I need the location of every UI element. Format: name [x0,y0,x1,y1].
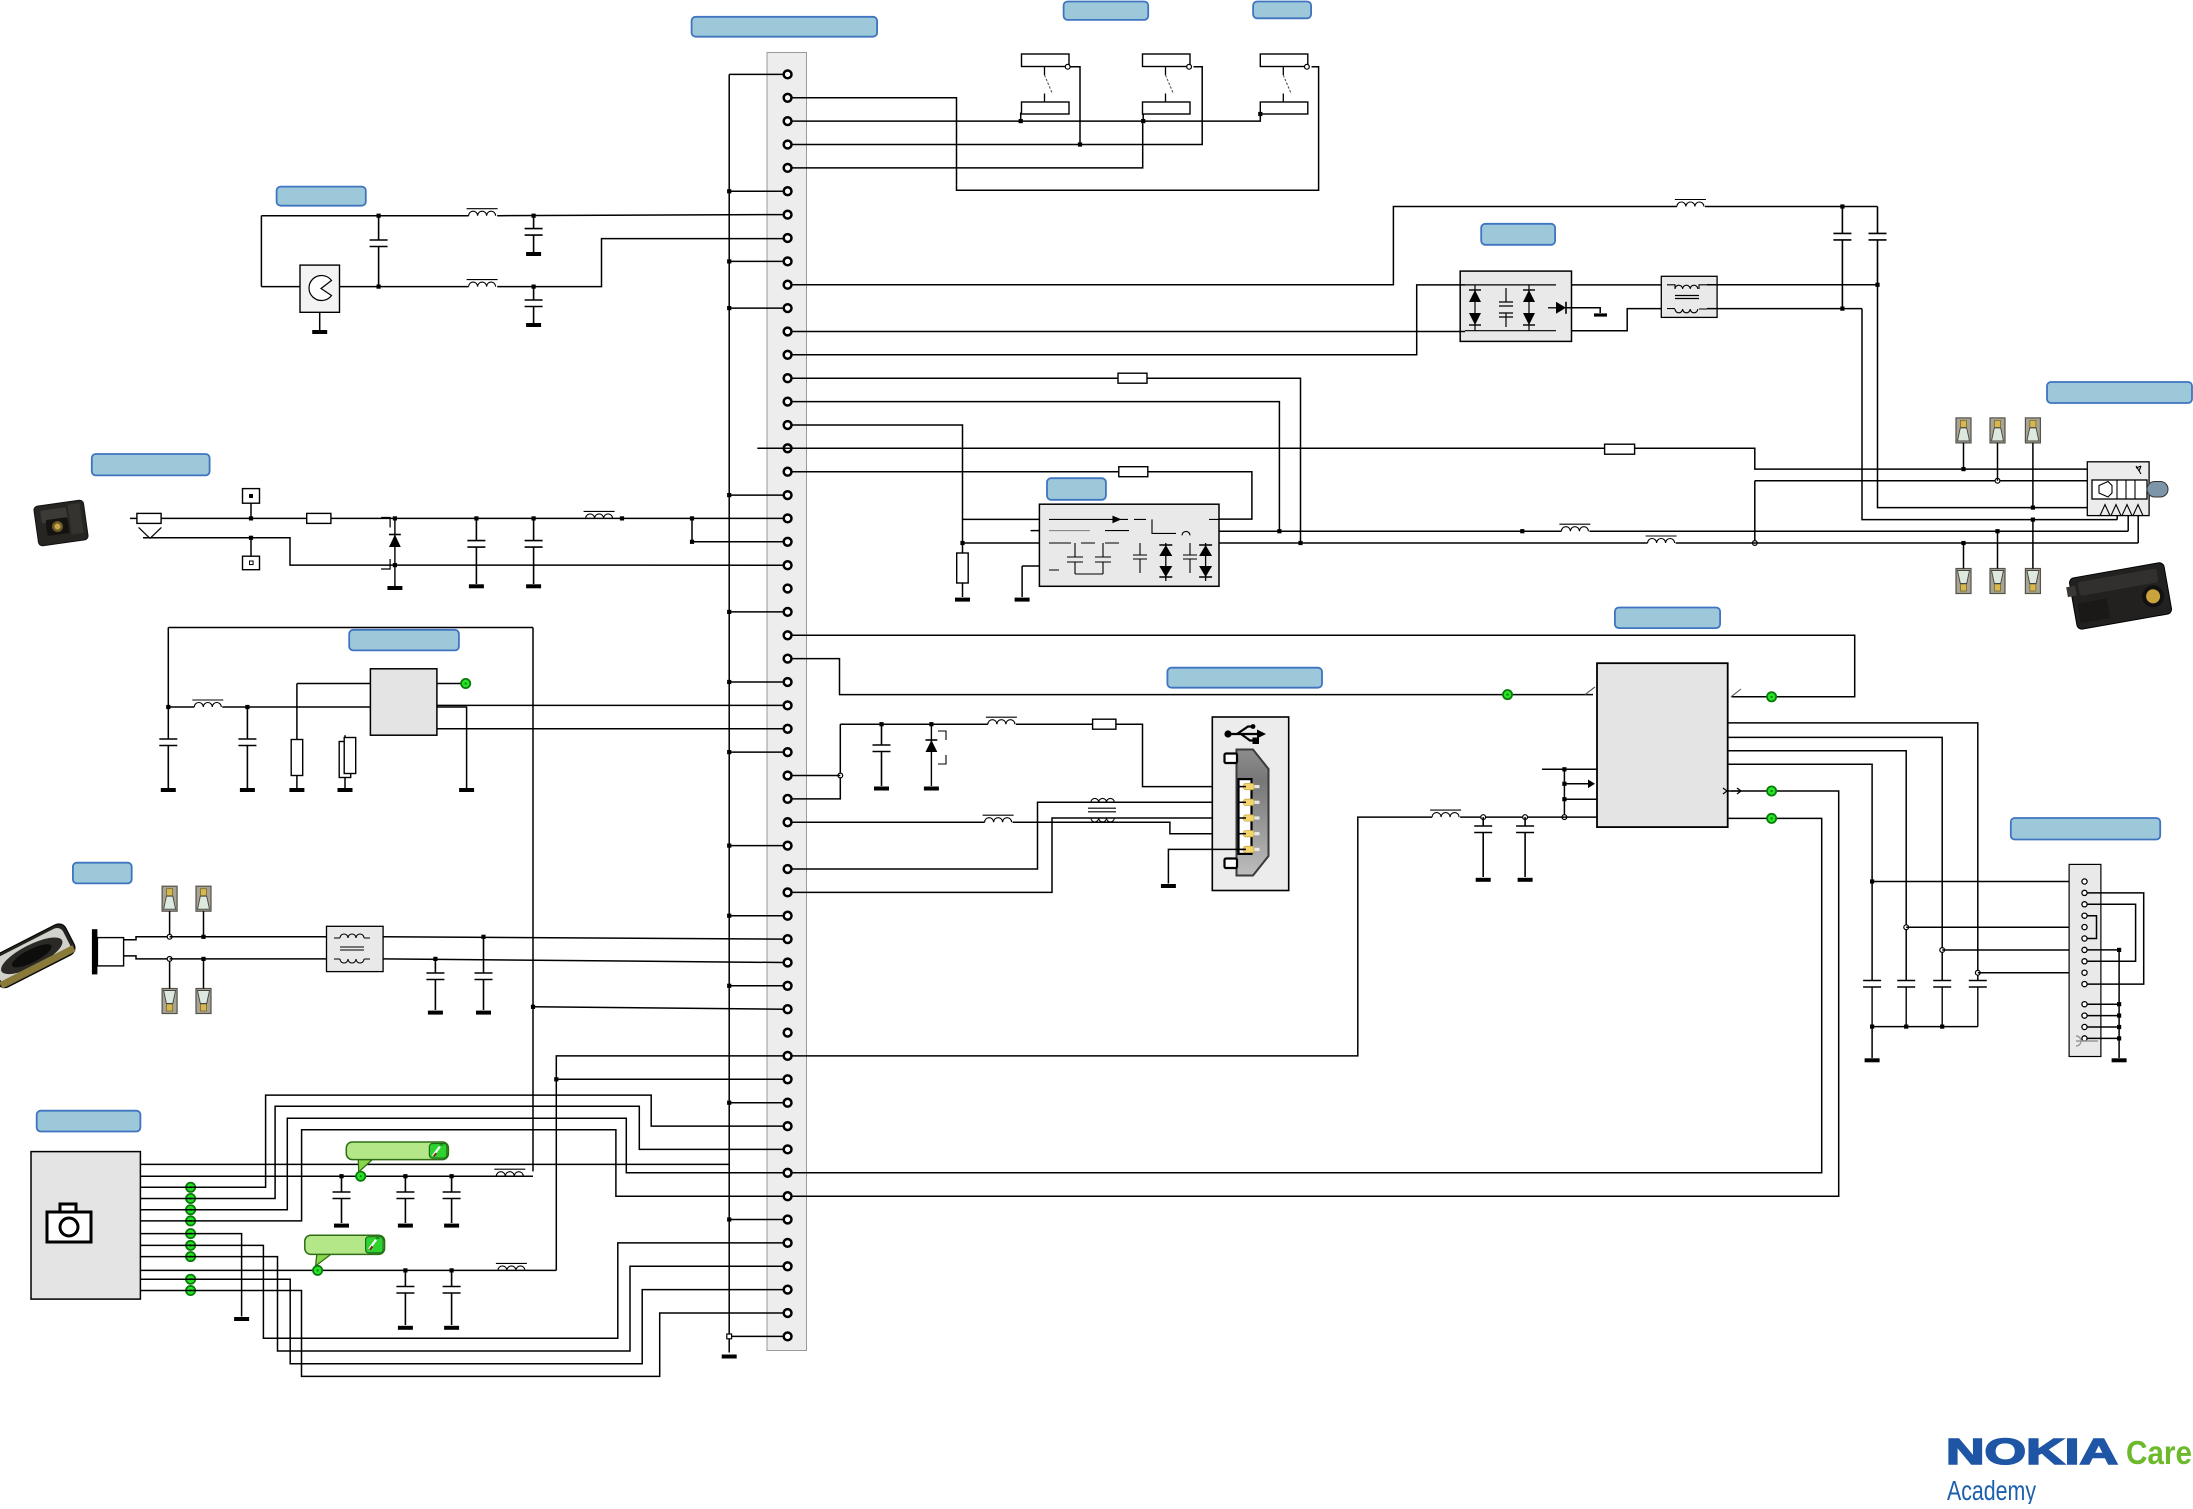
pin 36 [784,889,792,897]
resistor - pin14 series [1118,373,1147,383]
capacitor - jack rail 2 [525,518,543,547]
junction - IC left bus 1 [1562,767,1566,771]
wire - EMI gnd stub [1021,566,1023,597]
wire [296,776,298,789]
junction - pad4 [201,957,205,961]
junction - transformer bottom [1840,307,1844,311]
photo - speaker/mic component [0,921,78,990]
wire - USB pin lead overlay [1239,786,1247,788]
wire - jack low rail to pin22 [395,564,784,566]
pin 43 [784,1052,792,1060]
junction - ESD on jack low rail [393,563,397,567]
capacitor - IC output filter [1897,981,1915,988]
pin 12 [784,328,792,336]
test point - camera w11 (green) [186,1275,195,1284]
USB pin 5 [1252,848,1260,851]
X200 pin 12 [2082,1013,2087,1018]
capacitor - mic 2 [475,937,493,980]
wire - pad3 down [2032,443,2034,508]
junction - IC left bus 4 [1562,815,1567,820]
junction - bus at pin 34 [727,844,731,848]
wire - regulator out to pin29 [437,728,784,730]
switch S2 right pin [1187,64,1192,69]
ground - rail2 cap [398,1326,413,1330]
callout - camera rail1 measurement [346,1142,448,1172]
wire - pad3 from bottom rail [169,959,171,989]
label - right connector [2011,818,2160,840]
switch S3 bottom terminal [1260,102,1308,114]
photo - charger jack component [33,500,88,547]
pin 9 [784,258,792,266]
inductor - VBUS [986,717,1017,724]
junction - X200 gnd stub [2117,1036,2121,1040]
wire - top rail to corner [1842,206,1877,208]
wire - rail2 up to pin43 [556,1056,783,1271]
resistor R1 - vertical [291,740,303,776]
junction - jack cap2 [532,516,536,520]
label - side keys 2 [1253,2,1311,19]
wire - camera rail2 [140,1269,556,1271]
capacitor - camera rail1 [333,1176,351,1198]
inductor - camera rail1 [494,1169,525,1176]
wire - pin14 to EMI row [1147,378,1301,543]
ground - rail1 cap [398,1224,413,1228]
diode - ESD output [1548,307,1556,309]
transformer T2 [1661,276,1717,317]
wire - bus to pin 37 [729,915,783,917]
pin 8 [784,234,792,242]
junction - VCAM feed to pin41 [531,1005,535,1009]
wire - camera w11 loop to pin53 [140,1279,783,1364]
X200 pin 5 [2082,925,2087,930]
capacitor - IC output filter [1863,981,1881,988]
wire - VBUS rail [840,723,988,725]
inductor - VBAT [1430,810,1461,817]
ground - jack cap1 [469,584,484,588]
wire - pad2 to top rail [203,911,205,937]
junction - VBUS cap [879,722,883,726]
capacitor - IC output filter [1969,981,1987,988]
wire - bus to pin 34 [729,845,783,847]
pin 1 [784,71,792,79]
junction - bus at pin 19 [727,493,731,497]
svg-text:NOKIA: NOKIA [1946,1431,2118,1472]
test point - camera rail1 (green) [356,1172,365,1181]
test point J-top [243,489,260,504]
junction - VBAT cap [1481,815,1486,820]
wire - mic bottom rail [170,958,327,960]
wire - earpiece bottom rail [340,286,469,288]
ground - rail1 cap [334,1224,349,1228]
wire - USB ID pin33 [792,821,985,823]
charging IC N2 [1597,663,1728,827]
junction - cap2 on top rail [532,214,536,218]
headset jack springs [2100,505,2143,516]
mic symbol box [97,938,123,966]
wire - S1 bottom pin stub [1020,113,1022,122]
ESD array internals [1465,285,1556,331]
contact pad - mic 1 bottom [162,989,177,1014]
junction - aux vertical at pin21 [690,540,694,544]
X200 pin 2 [2082,890,2087,895]
wire - pin 1 to bus [729,73,783,75]
switch S2 arm [1165,67,1167,103]
wire - earpiece bottom rail to pin8 [497,239,783,287]
ground - earpiece cap3 [526,323,541,327]
wire - feed down to headset row 507 [1878,285,2088,508]
wire - X200 gnd vertical [2118,950,2120,1058]
X200 pin 14 [2082,1036,2087,1041]
Nokia Care Academy logo [1946,1431,2192,1506]
junction - testpoint on jack rail [249,516,253,520]
resistor R2 - double [339,742,351,778]
junction - ESD on jack rail [393,516,397,520]
ground - jack ESD [387,586,402,590]
junction - bus at pin 27 [727,680,731,684]
wire - EMI gnd stub2 [1022,565,1039,567]
switch S1 arm [1044,67,1046,103]
wire [344,778,346,789]
junction - rail1 cap [403,1174,407,1178]
wire - IC stub4 [1564,816,1597,818]
junction - r1 row [1975,970,1980,975]
wire - X200 loop p3-p8 [2087,904,2136,961]
pin 52 [784,1262,792,1270]
wire - row to conn pin5 [1906,926,2084,928]
ground - EMI [1015,598,1030,602]
ground - mic cap1 [428,1011,443,1015]
junction - r2 row [1940,948,1945,953]
pin 23 [784,585,792,593]
ground - R2 [338,788,353,792]
wire - row to conn pin1 [1872,881,2084,883]
wire - pin26 to charge IC left [792,659,1508,695]
mic symbol bar [92,929,98,974]
label - charger/AV jack [92,454,210,475]
wire - inductor to regulator [222,706,370,708]
capacitor - IC output filter [1933,981,1951,988]
transformer T2 coils [1675,285,1698,289]
junction - jack cap1 [474,516,478,520]
junction - IC left bus 2 [1562,782,1566,786]
pin 24 [784,608,792,616]
junction - pin15 net [1277,529,1281,533]
pin 29 [784,725,792,733]
wire - USB pin lead overlay [1239,848,1247,850]
EMI TVS diodes [1165,543,1167,581]
wire - USB pin lead overlay [1239,817,1247,819]
capacitor - top rail 1 [1833,207,1851,240]
wire - VBUS down to pin32 [792,724,841,799]
wire - caps common [1872,1026,1978,1028]
ground - rail2 cap [444,1326,459,1330]
camera module [31,1152,140,1300]
contact pad - headset bottom [1956,569,1971,594]
contact pad - headset top [2025,418,2040,443]
wire - camera w7 to ground [140,1234,241,1317]
switch S1 bottom terminal [1022,102,1070,114]
ground - X200 [2112,1058,2127,1062]
wire - vertical to row542 [1754,481,1756,543]
wire - bus to pin 6 [729,190,783,192]
wire - jack rail left stub [130,517,137,519]
junction - S1 bottom pin on pin3 net [1019,119,1023,123]
wire - pin2 to S3 right pin [792,67,1319,191]
headset jack symbol box [2087,462,2149,516]
contact pad - mic 1 top [162,886,177,911]
wire - pin10 up to top rail [792,207,1677,285]
capacitor - earpiece rails [370,216,388,287]
pin 53 [784,1286,792,1294]
X200 pin 11 [2082,1002,2087,1007]
test point - camera w5 (green) [186,1205,195,1214]
ground - ESD small [1594,313,1607,316]
wire - earpiece top rail [261,215,468,217]
inductor - jack rail [584,511,615,518]
ground - connector bus [722,1355,737,1359]
junction - row542 [1752,541,1757,546]
junction (open) - bus at pin 55 [727,1334,732,1339]
wire - row to conn pin9 [1978,972,2085,974]
X200 pin 7 [2082,947,2087,952]
EMI filter internals [1049,516,1219,574]
wire - pin18 row [792,471,1119,473]
switch S3 arm [1282,67,1284,103]
wire - X200 p7 stub [2087,949,2119,951]
wire - bus to pin 45 [729,1102,783,1104]
wire - bus to pin 50 [729,1219,783,1221]
inductor - USB ID [983,815,1014,822]
wire - mic out bottom [124,956,170,959]
junction - pad1 [167,934,172,939]
pin 13 [784,351,792,359]
USB pin 1 [1252,785,1260,788]
ground - USB shield [1161,884,1176,888]
wire - pin18 to EMI right [1148,472,1252,519]
contact pad - headset bottom [1990,569,2005,594]
headset plug symbol [2092,480,2147,499]
ground - regulator [459,788,474,792]
junction - bus at pin 11 [727,306,731,310]
wire - mid row 531 right [1589,530,2128,532]
junction - jack rail to aux vertical [690,516,694,520]
wire - pin12 to ESD bottom [792,331,1465,333]
pin 35 [784,865,792,873]
label - mic [73,863,132,884]
junction - EMI bias resistor [960,541,964,545]
wire - row to conn pin7 [1942,949,2084,951]
test point - camera w3 (green) [186,1183,195,1192]
junction - pad1 on row469 [1961,467,1965,471]
wire - IC out r1 [1728,723,1978,981]
resistor - VBUS series [1093,719,1116,729]
pin 30 [784,748,792,756]
wire - USB shield to ground [1168,849,1238,883]
test point - camera w8 (green) [186,1241,195,1250]
pin 54 [784,1309,792,1317]
ground - IC caps [1865,1058,1880,1062]
ESD array box [1460,271,1571,341]
junction - pad6 row [2031,518,2035,522]
wire - ESD to transformer bottom [1572,309,1662,331]
headset jack arrow [2136,466,2141,474]
wire - mic top rail [170,936,327,938]
capacitor - top rail 2 [1869,207,1887,240]
svg-text:Care: Care [2126,1434,2192,1471]
wire - mid row 543 right [1676,542,2139,544]
ground - rail1 cap [444,1224,459,1228]
pin 19 [784,491,792,499]
label - earpiece [277,187,366,206]
junction - bus at pin 50 [727,1217,731,1221]
wire - jack rail to pin20 [161,517,784,519]
contact pad - headset top [1956,418,1971,443]
wire - VCAM to pin41 [533,1007,784,1009]
X200 pin 13 [2082,1024,2087,1029]
inductor - top rail [1675,200,1706,207]
wire - VBAT pin43 loop [792,817,1433,1056]
wire - spring4 to row543 [2137,516,2139,543]
junction - pad2 [201,935,205,939]
X200 pin 1 [2082,879,2087,884]
junction - X200 gnd stub [2117,1002,2121,1006]
contact pad - mic 2 top [196,886,211,911]
junction - bus at pin 24 [727,610,731,614]
wire - pad1 to top rail [169,911,171,937]
switch S1 right pin [1065,64,1070,69]
junction - bus at pin 9 [727,259,731,263]
pin 55 [784,1333,792,1341]
wire - USB ID to pin4 [1013,822,1245,834]
wire - pad4 up [1963,543,1965,569]
slash mark - IC right entry [1731,689,1741,697]
wire - EMI left top branch [963,518,1040,520]
pin 44 [784,1075,792,1083]
earpiece speaker symbol [309,276,332,301]
pin 40 [784,982,792,990]
switch S2 bottom terminal [1143,102,1191,114]
junction - cap on earpiece bottom rail [377,285,381,289]
capacitor - camera rail1 [396,1176,414,1198]
wire - bus to pin 24 [729,611,783,613]
wire - pin3 to switch bottom pins [792,114,1261,121]
wire - X200 gnd stub [2087,1003,2119,1005]
label - FM antenna [1481,224,1555,245]
wire - EMI left mid stub [1031,530,1040,532]
wire - IC stub1 [1542,768,1597,770]
junction - pad3 [167,957,172,962]
pin 2 [784,94,792,102]
junction - S2 bottom pin on pin3 net [1141,119,1145,123]
wire - pin17 long row to headset [757,448,2087,469]
wire - VBUS to USB pin1 [1116,724,1245,786]
ground - VBAT cap [1476,878,1491,882]
ground - jack cap2 [526,584,541,588]
wire - pin5 up to S2 bottom net [792,123,1143,168]
wire - transformer bottom row extend [1842,308,1862,310]
inductor - mid row 543 [1646,536,1677,543]
pin 32 [784,795,792,803]
wire - R2 lead [344,735,346,741]
junction - mic cap1 [433,957,437,961]
wire - to pin21 [692,541,784,543]
wire - X200 loop p2-p10 [2087,893,2144,984]
pin 7 [784,211,792,219]
pin 37 [784,912,792,920]
junction - cap column at transformer top row [1875,283,1879,287]
camera icon [47,1204,91,1242]
junction - cap2 [245,705,249,709]
label - USB connector [1167,668,1322,688]
pin 34 [784,842,792,850]
capacitor - earpiece top to gnd [525,216,543,235]
wire - earpiece top rail to pin7 [497,215,783,216]
test point - camera w12 (green) [186,1286,195,1295]
contact pad - mic 2 bottom [196,989,211,1014]
slash mark - IC left entry [1585,687,1595,695]
arrow - IC stub2 [1588,780,1595,789]
wire - pad2 down [1997,443,1999,481]
wire - pin13 to ESD top [792,285,1465,355]
pin 26 [784,655,792,663]
wire - USB pin lead overlay [1239,801,1247,803]
wire - bus to pin 27 [729,681,783,683]
wire - regulator out to pin28 [437,704,784,706]
wire - feedback [297,683,371,685]
wire - bus to pin 19 [729,494,783,496]
wire - pad6 up [2032,520,2034,569]
wire - bus to pin 30 [729,751,783,753]
pin 15 [784,398,792,406]
wire - earpiece to speaker left [261,286,300,288]
inductor - regulator input [192,700,223,707]
test point - camera w7 (green) [186,1229,195,1238]
junction - pad2 on row480 [1995,478,2000,483]
wire - IC out r3 [1728,751,1907,981]
junction - rail1 cap [450,1174,454,1178]
wire - pin25 loop to charge IC right [792,635,1855,697]
wire - IC stub2 (arrow) [1564,783,1588,785]
wire - pin4 to S2 right pin [792,67,1203,145]
fuse F1 - jack rail [137,513,161,523]
test point - charge IC right (green) [1767,692,1776,701]
pin 21 [784,538,792,546]
wire - ESD out to ground [1566,308,1600,313]
USB shell tab top [1225,754,1238,764]
wire - camera rail1 [140,1175,533,1177]
label - EMI filter [1047,478,1106,500]
wire - camera w3 to pin46 [140,1095,783,1187]
inductor - mid row 531 [1559,524,1590,531]
wire - regulator gnd pin [437,707,467,788]
pin 22 [784,561,792,569]
wire [962,583,964,597]
USB micro-B connector [1212,717,1288,891]
X200 pin 9 [2082,970,2087,975]
wire - X200 gnd stub [2087,1026,2119,1028]
label - headset detection [2047,382,2192,403]
wire - earpiece to ground [319,312,321,330]
connector X100 board-to-board strip [767,53,807,1351]
pin 47 [784,1146,792,1154]
wire - testpoint stub [250,503,252,518]
junction - cap on earpiece top rail [377,214,381,218]
wire - X200 loop p4-p6 [2087,916,2097,939]
X200 pin 3 [2082,902,2087,907]
junction - rail1 cap [339,1174,343,1178]
wire - pin16 to EMI left [792,425,1040,543]
junction - rail2 cap [403,1268,407,1272]
